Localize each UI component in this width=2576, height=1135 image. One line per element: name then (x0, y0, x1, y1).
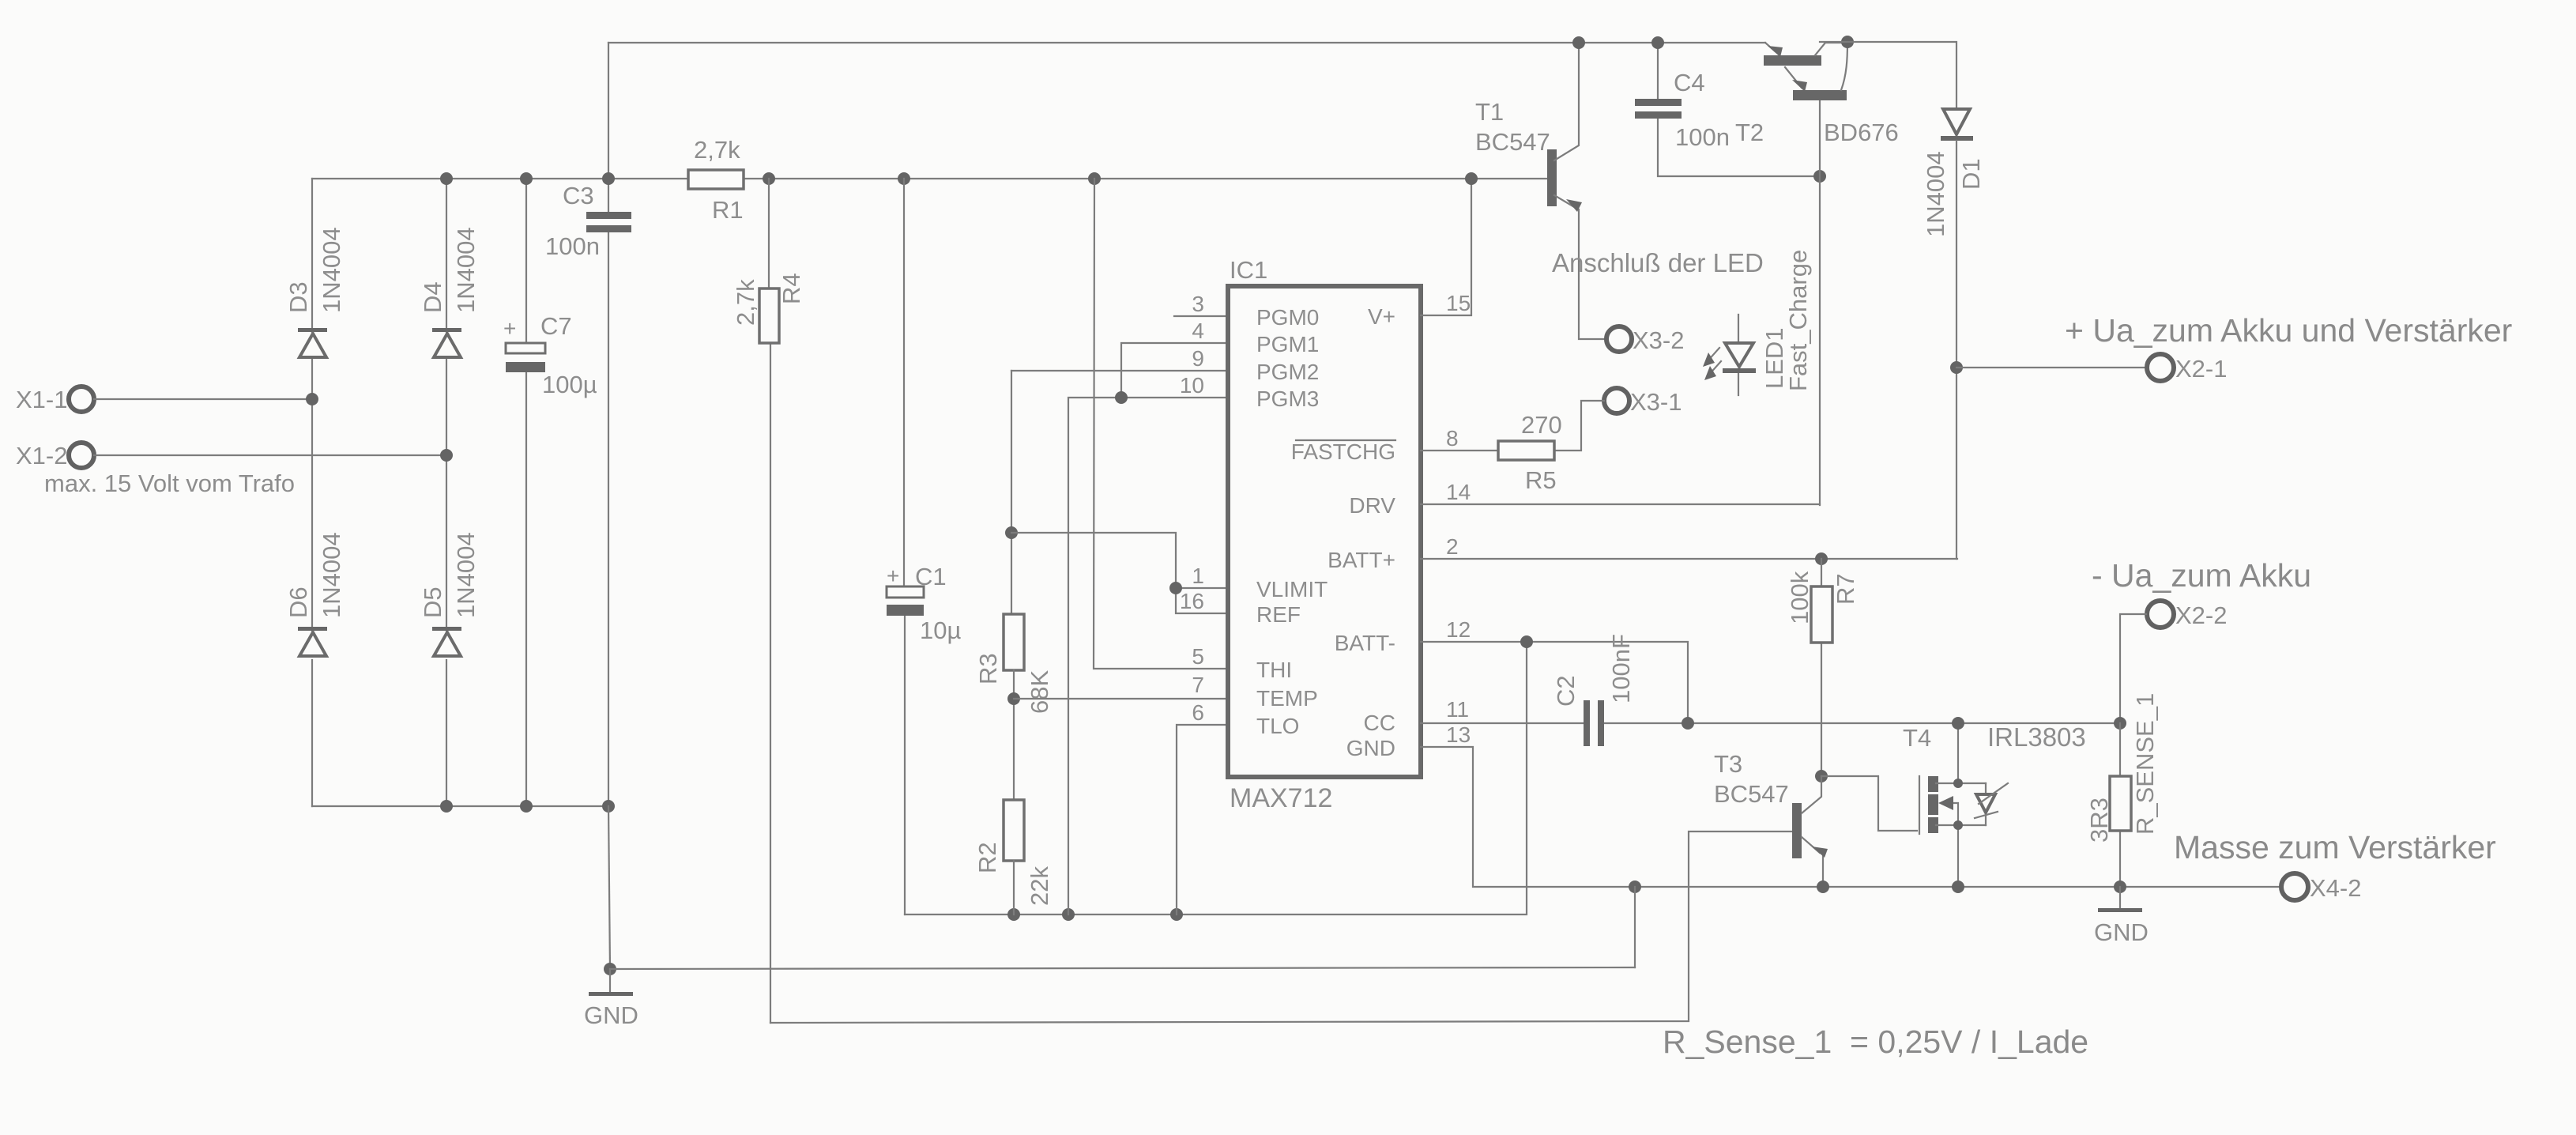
svg-text:BATT-: BATT- (1335, 631, 1395, 655)
wire main rail (rectifier +) (312, 178, 1550, 179)
junction top rail / C4 (1651, 36, 1664, 49)
wire pin13 GND to ground bus (1421, 747, 2281, 887)
wire pin8 FASTCHG to R5 (1421, 450, 1498, 451)
svg-text:R5: R5 (1525, 466, 1557, 494)
wire PGM1 stub (1121, 343, 1228, 398)
connector X2-1 (2147, 354, 2174, 381)
svg-text:6: 6 (1192, 700, 1204, 725)
svg-text:PGM0: PGM0 (1256, 305, 1319, 330)
body diode T4 (zener) (1985, 783, 1987, 825)
svg-text:13: 13 (1446, 722, 1471, 747)
capacitor C4 (1658, 43, 1820, 176)
svg-text:R1: R1 (712, 196, 744, 224)
svg-text:T2: T2 (1735, 119, 1764, 146)
arrow T3 emitter (1812, 847, 1828, 858)
svg-text:BATT+: BATT+ (1328, 548, 1395, 572)
svg-text:3: 3 (1192, 292, 1204, 316)
junction drain / diode (1953, 779, 1963, 788)
junction rail/V+ (1465, 172, 1478, 185)
svg-text:2: 2 (1446, 534, 1459, 559)
junction source / diode (1953, 820, 1963, 830)
svg-text:PGM1: PGM1 (1256, 332, 1319, 356)
junction rail/C1 (898, 172, 910, 185)
svg-text:R_Sense_1 = 0,25V / I_Lade: R_Sense_1 = 0,25V / I_Lade (1663, 1024, 2088, 1060)
diode D5 (432, 627, 461, 631)
connector X2-2 (2147, 601, 2174, 628)
junction bottom/C7 (520, 800, 533, 813)
wire BATT- bus (905, 642, 1527, 914)
svg-text:MAX712: MAX712 (1230, 783, 1332, 813)
svg-text:8: 8 (1446, 426, 1459, 451)
wire REF/VLIMIT link (1011, 533, 1228, 613)
svg-text:2,7k: 2,7k (732, 279, 759, 326)
wire THI feed from rail (1094, 179, 1227, 669)
wire X3-1 to R5 (1554, 401, 1604, 451)
junction bottom/C3 column (602, 800, 615, 813)
resistor R_SENSE_1 (2119, 723, 2121, 887)
connector X1-2 (69, 443, 94, 468)
wire T4 drain (1936, 723, 1986, 783)
wire pin15 V+ to rail (1421, 179, 1471, 315)
junction pin12/TLO-net (1520, 635, 1533, 648)
junction rail/D4 (440, 172, 453, 185)
svg-text:100nF: 100nF (1607, 634, 1635, 703)
svg-text:15: 15 (1446, 291, 1471, 315)
svg-text:16: 16 (1180, 589, 1204, 613)
wire pin12 BATT- (1421, 642, 1688, 723)
junction PGM1/PGM3 (1115, 391, 1128, 404)
svg-text:V+: V+ (1368, 304, 1395, 329)
resistor R3 (1004, 614, 1024, 670)
junction C4 / T2 base (1813, 170, 1826, 183)
wire T2 base / DRV riser (1819, 100, 1821, 505)
svg-text:7: 7 (1192, 673, 1204, 697)
junction source / gnd bus (1952, 880, 1964, 893)
svg-text:22k: 22k (1026, 866, 1053, 906)
svg-text:C2: C2 (1552, 675, 1580, 707)
diode D6 (298, 627, 327, 631)
svg-text:Fast_Charge: Fast_Charge (1784, 250, 1812, 391)
junction REF node (1005, 526, 1018, 539)
svg-text:BC547: BC547 (1475, 128, 1550, 156)
svg-text:R_SENSE_1: R_SENSE_1 (2131, 693, 2159, 835)
svg-text:X1-2: X1-2 (16, 442, 67, 469)
junction rail/THI feed (1088, 172, 1101, 185)
capacitor C7 (525, 179, 527, 806)
svg-text:T1: T1 (1475, 98, 1504, 126)
svg-text:10µ: 10µ (920, 617, 961, 644)
LED1 Fast_Charge (1738, 315, 1739, 395)
junction rail/C7 (520, 172, 533, 185)
svg-text:+: + (887, 564, 899, 588)
resistor R5 (1498, 441, 1554, 460)
wire X2-2 down to sense node (2120, 614, 2146, 723)
svg-text:10: 10 (1180, 373, 1204, 398)
wire ground bus to right (610, 967, 1635, 969)
svg-text:PGM3: PGM3 (1256, 387, 1319, 411)
svg-text:4: 4 (1192, 319, 1204, 343)
svg-text:1N4004: 1N4004 (318, 227, 345, 313)
svg-text:GND: GND (2094, 918, 2149, 946)
junction rail/R4 (763, 172, 775, 185)
wire to X2-1 (1956, 367, 2146, 368)
svg-text:THI: THI (1256, 658, 1292, 682)
wire TLO (1177, 725, 1228, 914)
resistor R7 (1815, 552, 1828, 565)
svg-text:C3: C3 (563, 182, 594, 209)
wire top rail left (608, 42, 1765, 43)
ground GND2 (2119, 887, 2121, 909)
wire T3 collector (1802, 776, 1821, 813)
svg-text:68K: 68K (1026, 670, 1053, 714)
resistor R4 (769, 179, 770, 1023)
svg-text:270: 270 (1521, 411, 1562, 439)
svg-text:- Ua_zum Akku: - Ua_zum Akku (2092, 557, 2311, 594)
connector X3-2 (1606, 326, 1632, 352)
svg-text:100µ: 100µ (542, 371, 597, 398)
svg-text:2,7k: 2,7k (694, 136, 740, 164)
svg-text:C7: C7 (540, 312, 572, 340)
junction BATT-/R2 (1007, 908, 1020, 921)
svg-text:TEMP: TEMP (1256, 686, 1318, 711)
svg-text:1N4004: 1N4004 (452, 227, 480, 313)
svg-text:D1: D1 (1957, 158, 1985, 190)
svg-text:1: 1 (1192, 564, 1204, 588)
svg-text:IC1: IC1 (1230, 256, 1267, 284)
svg-text:BC547: BC547 (1714, 780, 1789, 808)
junction T3 collector / T4 gate (1815, 770, 1828, 782)
diode D1 1N4004 (1943, 109, 1970, 134)
wire PGM2 (1011, 370, 1228, 371)
wire R4 to T3 base run (770, 831, 1794, 1023)
junction R_SENSE / gnd bus (2114, 880, 2126, 893)
svg-text:R4: R4 (778, 273, 805, 304)
op-amp U1 / IC1 MAX712 body (1228, 286, 1421, 777)
svg-text:X2-1: X2-1 (2175, 355, 2227, 383)
svg-text:14: 14 (1446, 480, 1471, 504)
resistor R1 (688, 170, 744, 189)
svg-text:R2: R2 (974, 842, 1001, 873)
transistor T1 BC547 (1547, 149, 1557, 206)
wire pin11 CC (1421, 722, 2120, 724)
svg-text:X1-1: X1-1 (16, 386, 67, 413)
resistor R2 (1004, 800, 1024, 861)
svg-text:CC: CC (1364, 711, 1395, 735)
svg-text:9: 9 (1192, 346, 1204, 371)
svg-text:D6: D6 (284, 586, 312, 618)
svg-text:REF: REF (1256, 602, 1301, 627)
svg-text:T3: T3 (1714, 750, 1742, 778)
wire PGM2 down leg (1011, 371, 1012, 614)
svg-text:D4: D4 (419, 281, 446, 313)
arrows LED light (1707, 348, 1719, 362)
svg-text:100n: 100n (1675, 123, 1730, 151)
diode D3 (298, 328, 327, 332)
svg-text:FASTCHG: FASTCHG (1291, 439, 1395, 464)
connector X3-1 (1604, 388, 1629, 413)
transistor T4 IRL3803 MOSFET (1919, 776, 1920, 834)
junction BATT-/PGM3 (1062, 908, 1075, 921)
transistor Q2 T2 BD676 (1765, 43, 1779, 55)
svg-text:IRL3803: IRL3803 (1987, 722, 2086, 752)
junction drain / CC wire (1952, 717, 1964, 730)
svg-text:12: 12 (1446, 617, 1471, 642)
junction D1 / X2-1 (1950, 361, 1963, 374)
svg-text:C4: C4 (1674, 69, 1705, 96)
junction sense node (2114, 717, 2126, 730)
capacitor C3 (608, 43, 609, 806)
wire pin14 DRV (1421, 503, 1820, 505)
wire D4/D5 column (446, 179, 447, 806)
junction ground node (604, 963, 616, 975)
arrow T4 body (1950, 803, 1958, 825)
svg-text:GND: GND (584, 1001, 638, 1029)
junction gnd bus / ground wire riser (1629, 880, 1641, 893)
svg-text:C1: C1 (915, 563, 947, 590)
svg-text:5: 5 (1192, 644, 1204, 669)
svg-text:R3: R3 (974, 653, 1002, 684)
wire T4 source (1936, 825, 1986, 887)
junction X1-2/D4 (440, 449, 453, 462)
wire D3/D6 column (311, 179, 313, 806)
junction BATT-/TLO (1170, 908, 1183, 921)
wire PGM0 stub (1174, 315, 1228, 317)
svg-text:X3-1: X3-1 (1630, 388, 1682, 416)
junction CC wire / pin12 leg (1682, 717, 1694, 730)
svg-text:+: + (503, 316, 516, 341)
svg-text:X2-2: X2-2 (2175, 601, 2227, 629)
ground GND1 (609, 969, 611, 993)
wire X1-1 (94, 398, 312, 400)
wire T4 gate (1821, 776, 1917, 831)
svg-text:3R3: 3R3 (2085, 798, 2113, 843)
svg-text:11: 11 (1446, 697, 1469, 722)
junction top rail / T1 collector (1572, 36, 1585, 49)
wire TEMP (1014, 698, 1228, 699)
svg-text:100k: 100k (1786, 571, 1813, 624)
connector X4-2 (2281, 873, 2308, 900)
junction VLIMIT pin (1169, 582, 1182, 594)
svg-text:100n: 100n (545, 232, 600, 260)
svg-text:Masse zum Verstärker: Masse zum Verstärker (2174, 829, 2496, 865)
svg-text:R7: R7 (1832, 573, 1859, 605)
wire bottom rectifier rail (312, 805, 609, 807)
diode D4 (432, 328, 461, 332)
svg-text:VLIMIT: VLIMIT (1256, 577, 1328, 601)
junction rail/C3 (602, 172, 615, 185)
svg-text:GND: GND (1346, 736, 1395, 760)
junction T3 emitter / gnd bus (1817, 880, 1829, 893)
svg-text:1N4004: 1N4004 (452, 532, 480, 618)
connector X1-1 (69, 387, 94, 412)
svg-text:1N4004: 1N4004 (1922, 151, 1949, 237)
svg-text:D5: D5 (419, 586, 446, 618)
capacitor C1 (904, 179, 905, 914)
svg-text:D3: D3 (284, 281, 312, 313)
junction X1-1/D3 (306, 393, 318, 405)
wire T1 collector (1554, 43, 1579, 160)
svg-text:BD676: BD676 (1824, 119, 1899, 146)
arrow T1 emitter (1566, 199, 1582, 212)
svg-text:X3-2: X3-2 (1633, 326, 1684, 354)
junction top rail / T2 collector (1841, 36, 1854, 48)
svg-text:T4: T4 (1903, 724, 1931, 752)
wire T3 emitter (1802, 837, 1823, 887)
wire riser to ground bus (1634, 887, 1636, 967)
wire T1 emitter (1554, 195, 1605, 339)
junction R3/R2/TEMP (1007, 692, 1020, 705)
svg-text:X4-2: X4-2 (2310, 874, 2361, 902)
wire pin2 BATT+ (1421, 558, 1957, 560)
svg-text:Anschluß der LED: Anschluß der LED (1552, 248, 1764, 277)
wire top rail right (1820, 42, 1956, 108)
junction bottom/D5 (440, 800, 453, 813)
svg-text:1N4004: 1N4004 (318, 532, 345, 618)
svg-text:DRV: DRV (1349, 493, 1395, 518)
svg-text:PGM2: PGM2 (1256, 360, 1319, 384)
capacitor C2 (1584, 700, 1590, 746)
svg-text:max. 15 Volt vom Trafo: max. 15 Volt vom Trafo (44, 469, 295, 497)
wire down to ground node (608, 806, 610, 969)
svg-text:+ Ua_zum Akku und Verstärker: + Ua_zum Akku und Verstärker (2065, 312, 2512, 349)
svg-text:TLO: TLO (1256, 714, 1299, 738)
wire X1-2 (94, 454, 446, 456)
wire PGM3 (1068, 398, 1228, 914)
